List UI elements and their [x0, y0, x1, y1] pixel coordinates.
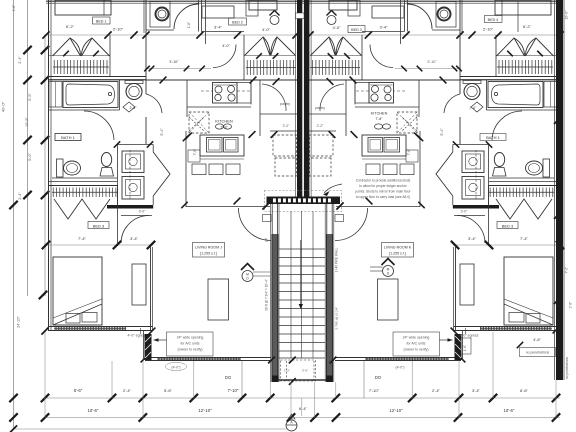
dim tick right bottom corner b	[517, 342, 523, 348]
dim tick landing right	[336, 202, 343, 209]
svg-text:DO: DO	[225, 375, 232, 380]
svg-text:to upper floor to carry load (: to upper floor to carry load (see A5.0)	[356, 195, 410, 199]
entry door tag (left unit)	[263, 215, 272, 222]
dimension line bed3 (right unit)	[453, 244, 562, 246]
closet C2 hanger rod (left unit)	[246, 60, 296, 75]
stair text left upper	[265, 238, 269, 242]
dim text 6-6 r	[520, 388, 529, 393]
range R1 burners (left unit)	[215, 86, 235, 102]
wall bath1 bottom (left unit)	[49, 181, 118, 183]
svg-text:no penetrations: no penetrations	[565, 357, 569, 379]
stair bottom interior	[281, 360, 316, 382]
dimension text 3-10 hall (left unit)	[169, 60, 179, 64]
dimension tick top right unit	[365, 31, 372, 38]
svg-text:10'-6": 10'-6"	[25, 117, 29, 127]
svg-text:1 HR FIRE WALL: 1 HR FIRE WALL	[335, 247, 339, 272]
text 4-0 oval (left unit)	[166, 362, 187, 370]
hall wall right (right unit)	[419, 131, 421, 207]
dimension tick wall bottom left (left unit)	[41, 327, 48, 334]
pedestal sink P1 base (left unit)	[100, 168, 114, 177]
smoke detector SD1 leader (left unit)	[253, 272, 270, 276]
label BED 2 right	[348, 26, 365, 33]
walls bed1 toilet room (right unit)	[460, 0, 462, 144]
label BATH 1 (left unit)	[55, 134, 81, 141]
dim text 3-4 r	[472, 388, 481, 393]
dimension tick left column	[41, 76, 49, 84]
dashed cabinet near party wall upper (right unit)	[310, 135, 334, 156]
utility box top (left unit)	[150, 2, 170, 28]
toilet WC2 bowl (left unit)	[64, 161, 81, 175]
dimension tick left column	[39, 291, 47, 299]
wall bed4 divider	[517, 2, 519, 32]
AC opening hatch (left unit)	[145, 334, 152, 360]
landing ledger board	[267, 197, 341, 205]
dimension text 10-6 rotated	[25, 117, 29, 127]
svg-text:4'-6": 4'-6"	[533, 338, 541, 342]
bed B1 headboard (right unit)	[495, 0, 551, 15]
svg-text:LIVING ROOM K: LIVING ROOM K	[384, 246, 412, 250]
svg-text:3'-0": 3'-0"	[139, 210, 147, 214]
dimension tick left column	[9, 201, 17, 209]
dimension tick bottom row2	[552, 413, 560, 421]
wall living bottom (right unit)	[335, 358, 461, 361]
svg-text:7'-8": 7'-8"	[375, 117, 383, 121]
svg-text:BED 4: BED 4	[488, 18, 499, 22]
dresser DR1 (right unit)	[460, 264, 474, 305]
dimension tick bed3 corner (left unit)	[149, 328, 156, 335]
svg-text:7'-6": 7'-6"	[407, 148, 411, 156]
text DO door tag (left unit)	[225, 375, 232, 380]
dimension tick bottom row2	[287, 413, 295, 421]
wall step bed3-living (left unit)	[141, 328, 144, 361]
label BED 3 right	[502, 224, 514, 229]
svg-text:KITCHEN: KITCHEN	[215, 119, 233, 124]
landing scallop outline	[265, 191, 342, 212]
dimension tick bed3 corner (right unit)	[451, 328, 458, 335]
dimension tick bottom row2	[310, 413, 318, 421]
text 3-10 hall right	[427, 60, 437, 64]
bed B3 fold line (right unit)	[504, 299, 553, 325]
dimension tick left column	[23, 136, 31, 144]
party wall tag	[296, 13, 305, 19]
label box LIVING ROOM (left unit)	[193, 243, 225, 258]
svg-text:2'-8": 2'-8"	[569, 302, 573, 308]
dimension tick top right unit	[456, 31, 463, 38]
dimension tick bottom row1	[408, 394, 416, 402]
island faucet (left unit)	[216, 124, 232, 129]
label BATH 1 box (left unit)	[55, 134, 81, 141]
window living bottom (right unit)	[365, 357, 449, 361]
tag 1-6 right unit	[461, 338, 471, 354]
dimension text 5-0 rotated	[28, 153, 32, 161]
dimension tick bed3 b (right unit)	[485, 241, 493, 249]
dimension tick bottom row2	[332, 413, 340, 421]
wall below tub (left unit)	[49, 109, 120, 111]
svg-text:DO: DO	[375, 375, 382, 380]
dimension tick hall f (left unit)	[271, 131, 278, 138]
svg-text:points. Studs to mirror from m: points. Studs to mirror from main floor	[355, 190, 411, 194]
dimension text 8-0 right	[380, 25, 389, 30]
svg-text:7'-2": 7'-2"	[565, 266, 569, 274]
svg-text:6'-2": 6'-2"	[523, 24, 532, 29]
extension lines bottom	[45, 332, 556, 418]
closet C3 bifold doors (right unit)	[496, 199, 552, 219]
dimension tick bed3 a (right unit)	[556, 241, 564, 249]
wall kitchen top (right unit)	[309, 79, 460, 81]
wall entry top (right unit)	[336, 207, 453, 209]
dimension tick bottom row1	[238, 394, 246, 402]
wd closet bifold doors (left unit)	[153, 152, 170, 196]
closet C3 hanger rod (right unit)	[489, 188, 554, 198]
powder lavatory counter (left unit)	[125, 81, 143, 84]
svg-text:Contractor to provide addition: Contractor to provide additional studs	[356, 179, 411, 183]
wall bed2 left short (right unit)	[400, 0, 402, 44]
dim text 2-4 r	[432, 388, 441, 393]
svg-text:to allow for proper ledger anc: to allow for proper ledger anchor	[359, 184, 407, 188]
dimension tick top left unit	[196, 31, 203, 38]
dimension tick hall h (left unit)	[181, 202, 187, 208]
dim text 12-10 r	[389, 408, 403, 413]
dim text 10-6 l	[88, 408, 99, 413]
powder lavatory basin (left unit)	[126, 84, 142, 100]
dimension tick left column	[23, 46, 31, 54]
wall entry top (left unit)	[153, 207, 270, 209]
corner sink diamond (right unit)	[471, 102, 483, 112]
wall living bottom (left unit)	[145, 358, 271, 361]
svg-text:3'-4": 3'-4"	[214, 25, 223, 30]
dim tick landing left	[262, 202, 269, 209]
leader arrow AC (left unit)	[154, 338, 167, 342]
closet C2 front ticks (left unit)	[256, 53, 278, 59]
dimension tick bottom row3	[10, 425, 17, 432]
bed B3 pillow a (right unit)	[526, 314, 540, 324]
dimension line top string	[44, 34, 560, 36]
dryer D1 (left unit)	[122, 177, 144, 200]
dim text 7-10 r	[369, 388, 380, 393]
text no penetrations rotated	[565, 357, 569, 379]
text 2-8 right edge rotated	[569, 302, 573, 308]
svg-text:for A/C units: for A/C units	[406, 342, 425, 346]
wall bath top (right unit)	[460, 79, 558, 81]
leader arrow AC (right unit)	[440, 338, 453, 342]
label pantry (left unit)	[280, 102, 290, 106]
text 1-6 hall rotated (left unit)	[187, 22, 191, 28]
text 4-0 oval right	[395, 366, 404, 370]
dimension tick hall e (left unit)	[249, 131, 256, 138]
dimension text 5-5 rotated	[28, 93, 32, 101]
dimension text 2-4b	[262, 27, 271, 32]
dimension line left B	[27, 0, 29, 296]
contractor note leader	[323, 184, 342, 196]
dimension tick bottom row1	[489, 394, 497, 402]
door arc bed3 (left unit)	[121, 216, 152, 244]
extension line living dim (right unit)	[363, 361, 365, 398]
svg-text:6'-6": 6'-6"	[520, 388, 529, 393]
smoke detector bed2 (left unit)	[270, 11, 280, 25]
closet C1 front ticks (right unit)	[507, 51, 543, 57]
dimension line left C	[44, 36, 46, 296]
door arc toilet room (left unit)	[146, 4, 199, 30]
label box BED 3 (left unit)	[88, 222, 109, 229]
wd closet bottom wall dark (left unit)	[107, 205, 153, 209]
svg-text:12'-10": 12'-10"	[198, 408, 212, 413]
dimension line bottom row1	[44, 397, 560, 399]
pantry walls (right unit)	[309, 80, 346, 136]
dimension tick bottom row1	[455, 394, 463, 402]
svg-text:12'-10": 12'-10"	[389, 408, 403, 413]
bathtub T1 inner (right unit)	[492, 84, 541, 105]
text 3-0 wd right	[461, 210, 469, 214]
dimension tick hall d (left unit)	[185, 133, 192, 140]
bathtub T1 drain (left unit)	[108, 92, 111, 95]
wall toilet room right (left unit)	[199, 0, 245, 32]
svg-text:LIVING ROOM J: LIVING ROOM J	[195, 246, 222, 250]
svg-text:5'-0": 5'-0"	[28, 153, 32, 161]
dimension tick left column	[41, 46, 49, 54]
stair bottom dim ticks	[268, 357, 336, 385]
bed B3 mattress (right unit)	[504, 257, 553, 325]
svg-text:4'-0": 4'-0"	[222, 44, 230, 48]
text DO right	[375, 375, 382, 380]
svg-text:2'-4": 2'-4"	[432, 388, 441, 393]
dimension tick hall i (left unit)	[234, 198, 241, 205]
dimension tick bottom row2	[139, 413, 147, 421]
note text AC opening (left unit)	[177, 336, 204, 352]
dimension text 40-0 rotated	[1, 101, 6, 112]
dimension tick left column	[23, 76, 31, 84]
bed B3 fold line (left unit)	[53, 299, 102, 325]
dimension tick hall g (right unit)	[417, 135, 423, 141]
svg-text:(4'-0"): (4'-0")	[395, 366, 404, 370]
window egress bed3 (right unit)	[480, 327, 552, 332]
svg-text:no penetrations: no penetrations	[526, 351, 550, 355]
wall pantry bottom (right unit)	[309, 130, 336, 132]
wall bed1 closet top (right unit)	[496, 35, 558, 77]
dimension tick bottom row2	[454, 413, 462, 421]
door arc bed2 entry (left unit)	[213, 45, 236, 68]
svg-text:2'-2": 2'-2"	[317, 124, 325, 128]
bathtub T1 inner (left unit)	[66, 84, 115, 105]
dimension tick top right unit	[494, 31, 501, 38]
dresser DR1 (left unit)	[132, 264, 146, 305]
coffee table (right unit)	[378, 279, 399, 320]
dimension tick wd b (left unit)	[147, 141, 153, 147]
dimension tick top right unit	[556, 31, 563, 38]
refrigerator F1 (left unit)	[189, 112, 209, 133]
dimension tick hall b (right unit)	[350, 77, 357, 84]
linen shelf (right unit)	[544, 82, 557, 108]
text 5-4 hall right	[440, 128, 444, 136]
note box AC opening (right unit)	[393, 332, 440, 356]
island sink S1 (left unit)	[200, 135, 244, 156]
island counter edge (right unit)	[362, 158, 406, 160]
bed B3 pillow b (left unit)	[82, 313, 97, 323]
svg-text:BED 3: BED 3	[502, 224, 514, 229]
window egress bed3 (left unit)	[54, 327, 126, 332]
svg-text:7'-10": 7'-10"	[228, 388, 239, 393]
kitchen corner fan (right unit)	[402, 117, 417, 131]
dimension tick hall b (left unit)	[250, 77, 257, 84]
closet C2 front ticks (right unit)	[328, 53, 350, 59]
svg-text:2'-4": 2'-4"	[18, 192, 22, 200]
stair text right lower	[335, 307, 339, 330]
wall tub lav divider (right unit)	[486, 80, 488, 110]
closet C1 hanger rod (right unit)	[497, 60, 553, 74]
label BATH 1 right	[480, 134, 506, 141]
note text AC right	[403, 336, 430, 352]
wall top exterior	[46, 1, 560, 3]
svg-text:6'-6": 6'-6"	[74, 388, 83, 393]
dashed cabinet near party wall lower (right unit)	[310, 158, 332, 176]
bed B2 headboard (right unit)	[329, 0, 357, 10]
washer W1 (right unit)	[462, 151, 484, 173]
washer W1 (left unit)	[122, 151, 144, 173]
dimension tick ac step (left unit)	[141, 356, 148, 363]
label box BED 2 (left unit)	[229, 18, 247, 25]
dimension tick bottom row1	[139, 394, 147, 402]
wall tub lav divider (left unit)	[119, 80, 121, 110]
dim text 2-4 l	[123, 388, 132, 393]
text 3-0 wd (left unit)	[139, 210, 147, 214]
label box LIVING ROOM (right unit)	[382, 243, 414, 258]
closet C1 bottom wall (left unit)	[49, 77, 147, 80]
dimension tick top right unit	[468, 31, 475, 38]
dimension tick top left unit	[42, 31, 49, 38]
dim text 12-10 l	[198, 408, 212, 413]
dimension tick hall c (right unit)	[327, 78, 334, 85]
kitchen side table (left unit)	[188, 150, 200, 162]
dimension tick top left unit	[142, 31, 149, 38]
wall left exterior	[49, 0, 52, 331]
dim text 7-10 l	[228, 388, 239, 393]
bed B3 pillow a (left unit)	[66, 314, 80, 324]
dimension text 7-4 bed3 (left unit)	[78, 236, 87, 241]
fire wall ticks	[554, 116, 562, 304]
svg-text:BED 1: BED 1	[96, 20, 107, 24]
dimension tick top left unit	[292, 31, 299, 38]
wall bath top (left unit)	[49, 79, 147, 81]
island counter edge (left unit)	[200, 158, 244, 160]
door arc bath1 (right unit)	[444, 94, 460, 113]
pedestal sink P1 head (left unit)	[101, 153, 111, 167]
label box BED 3 (right unit)	[497, 222, 518, 229]
wall bed2 left short (left unit)	[205, 0, 207, 44]
svg-text:BED 3: BED 3	[351, 28, 362, 32]
dim tick right bottom corner a	[553, 327, 560, 334]
svg-text:5'-5": 5'-5"	[28, 93, 32, 101]
text 7-2 right edge rotated	[565, 266, 569, 274]
dimension tick left column	[41, 136, 49, 144]
entry door arc (right unit)	[335, 208, 368, 241]
dimension tick bed3 c (right unit)	[451, 241, 459, 249]
dimension tick wd a (left unit)	[114, 141, 120, 147]
toilet WC2 tank (left unit)	[57, 159, 64, 177]
dimension text 3-10 right	[333, 25, 342, 30]
svg-text:3'-4": 3'-4"	[380, 25, 389, 30]
pantry walls (left unit)	[260, 80, 297, 136]
closet C2 bifold doors (right unit)	[311, 37, 362, 56]
svg-text:BED 2: BED 2	[232, 21, 243, 25]
text 4-6 right	[533, 338, 541, 342]
dashed cabinet near party wall lower (left unit)	[275, 158, 297, 176]
dimension line left A	[13, 0, 15, 428]
dimension line bed3 (left unit)	[44, 244, 153, 246]
door arc pantry (right unit)	[320, 84, 344, 111]
dimension tick bottom row2	[41, 413, 49, 421]
svg-text:5'-4": 5'-4"	[440, 128, 444, 136]
extension line living dim (left unit)	[241, 361, 243, 398]
section bubble	[286, 414, 297, 431]
island stools (right unit)	[366, 164, 414, 175]
text 7-6 kitchen right	[407, 148, 411, 156]
walls bed1 toilet room (left unit)	[144, 0, 146, 144]
svg-text:7'-4": 7'-4"	[520, 236, 529, 241]
bed B1 headboard (left unit)	[55, 0, 111, 15]
fire wall right edge	[555, 0, 565, 380]
wall bed3 right (right unit)	[454, 247, 456, 331]
smoke detector SD2 leader	[370, 267, 383, 271]
text 2-2 pantry (left unit)	[283, 124, 291, 128]
closet C3 right wall (left unit)	[117, 186, 119, 247]
range R1 (right unit)	[369, 83, 394, 104]
svg-text:(owner to verify): (owner to verify)	[403, 348, 428, 352]
dim text 6-4 c	[299, 406, 308, 411]
svg-text:[1,255 s.f.]: [1,255 s.f.]	[200, 252, 217, 256]
text 2-2 pantry right	[317, 124, 325, 128]
hall dim line (left unit)	[145, 68, 211, 70]
bed B2 headboard (left unit)	[249, 0, 277, 10]
dashed cabinet near party wall upper (left unit)	[273, 135, 297, 156]
powder lavatory counter (right unit)	[463, 81, 481, 84]
svg-text:3'-4": 3'-4"	[130, 236, 139, 241]
dimension tick bed3 b (left unit)	[113, 241, 121, 249]
kitchen counter dashes (right unit)	[356, 90, 405, 92]
kitchen counter right (left unit)	[237, 83, 251, 104]
label BED 1 right	[485, 16, 503, 23]
dimension text 4-2 right	[483, 27, 494, 32]
dimension tick wd b (right unit)	[453, 141, 459, 147]
bed B3 mattress (left unit)	[53, 257, 102, 325]
dimension tick hall e (right unit)	[351, 131, 358, 138]
wall below tub (right unit)	[487, 109, 558, 111]
hall dim ticks (right unit)	[401, 66, 462, 72]
wall pantry bottom (left unit)	[270, 130, 297, 132]
dimension tick left column	[23, 191, 31, 199]
island sink S1 (right unit)	[362, 135, 406, 156]
range R1 (left unit)	[213, 83, 238, 104]
text egress right	[460, 334, 479, 338]
svg-text:24" wide opening: 24" wide opening	[177, 336, 204, 340]
toilet WC2 bowl (right unit)	[526, 161, 543, 175]
wall bed3 bottom (right unit)	[454, 327, 558, 331]
kitchen side table (right unit)	[406, 150, 418, 162]
text no penetrations box	[520, 348, 556, 357]
closet C2 bifold doors (left unit)	[245, 37, 296, 56]
nightstand bed2 (left unit)	[246, 0, 258, 16]
smoke detector SD2	[383, 266, 394, 277]
svg-text:pantry: pantry	[315, 106, 325, 110]
svg-text:BED 3: BED 3	[93, 224, 105, 229]
svg-text:(owner to verify): (owner to verify)	[177, 348, 202, 352]
dimension tick left column	[9, 413, 17, 421]
label BED 1 left	[96, 20, 107, 24]
svg-text:2'-4": 2'-4"	[123, 388, 132, 393]
stair treads	[279, 249, 325, 358]
svg-text:16 R @ 7 3/4" = 10'-4": 16 R @ 7 3/4" = 10'-4"	[265, 279, 269, 311]
bath1 vanity counter (left unit)	[52, 177, 117, 179]
wall bed3 right (left unit)	[151, 247, 153, 331]
wd closet walls (right unit)	[453, 144, 489, 205]
